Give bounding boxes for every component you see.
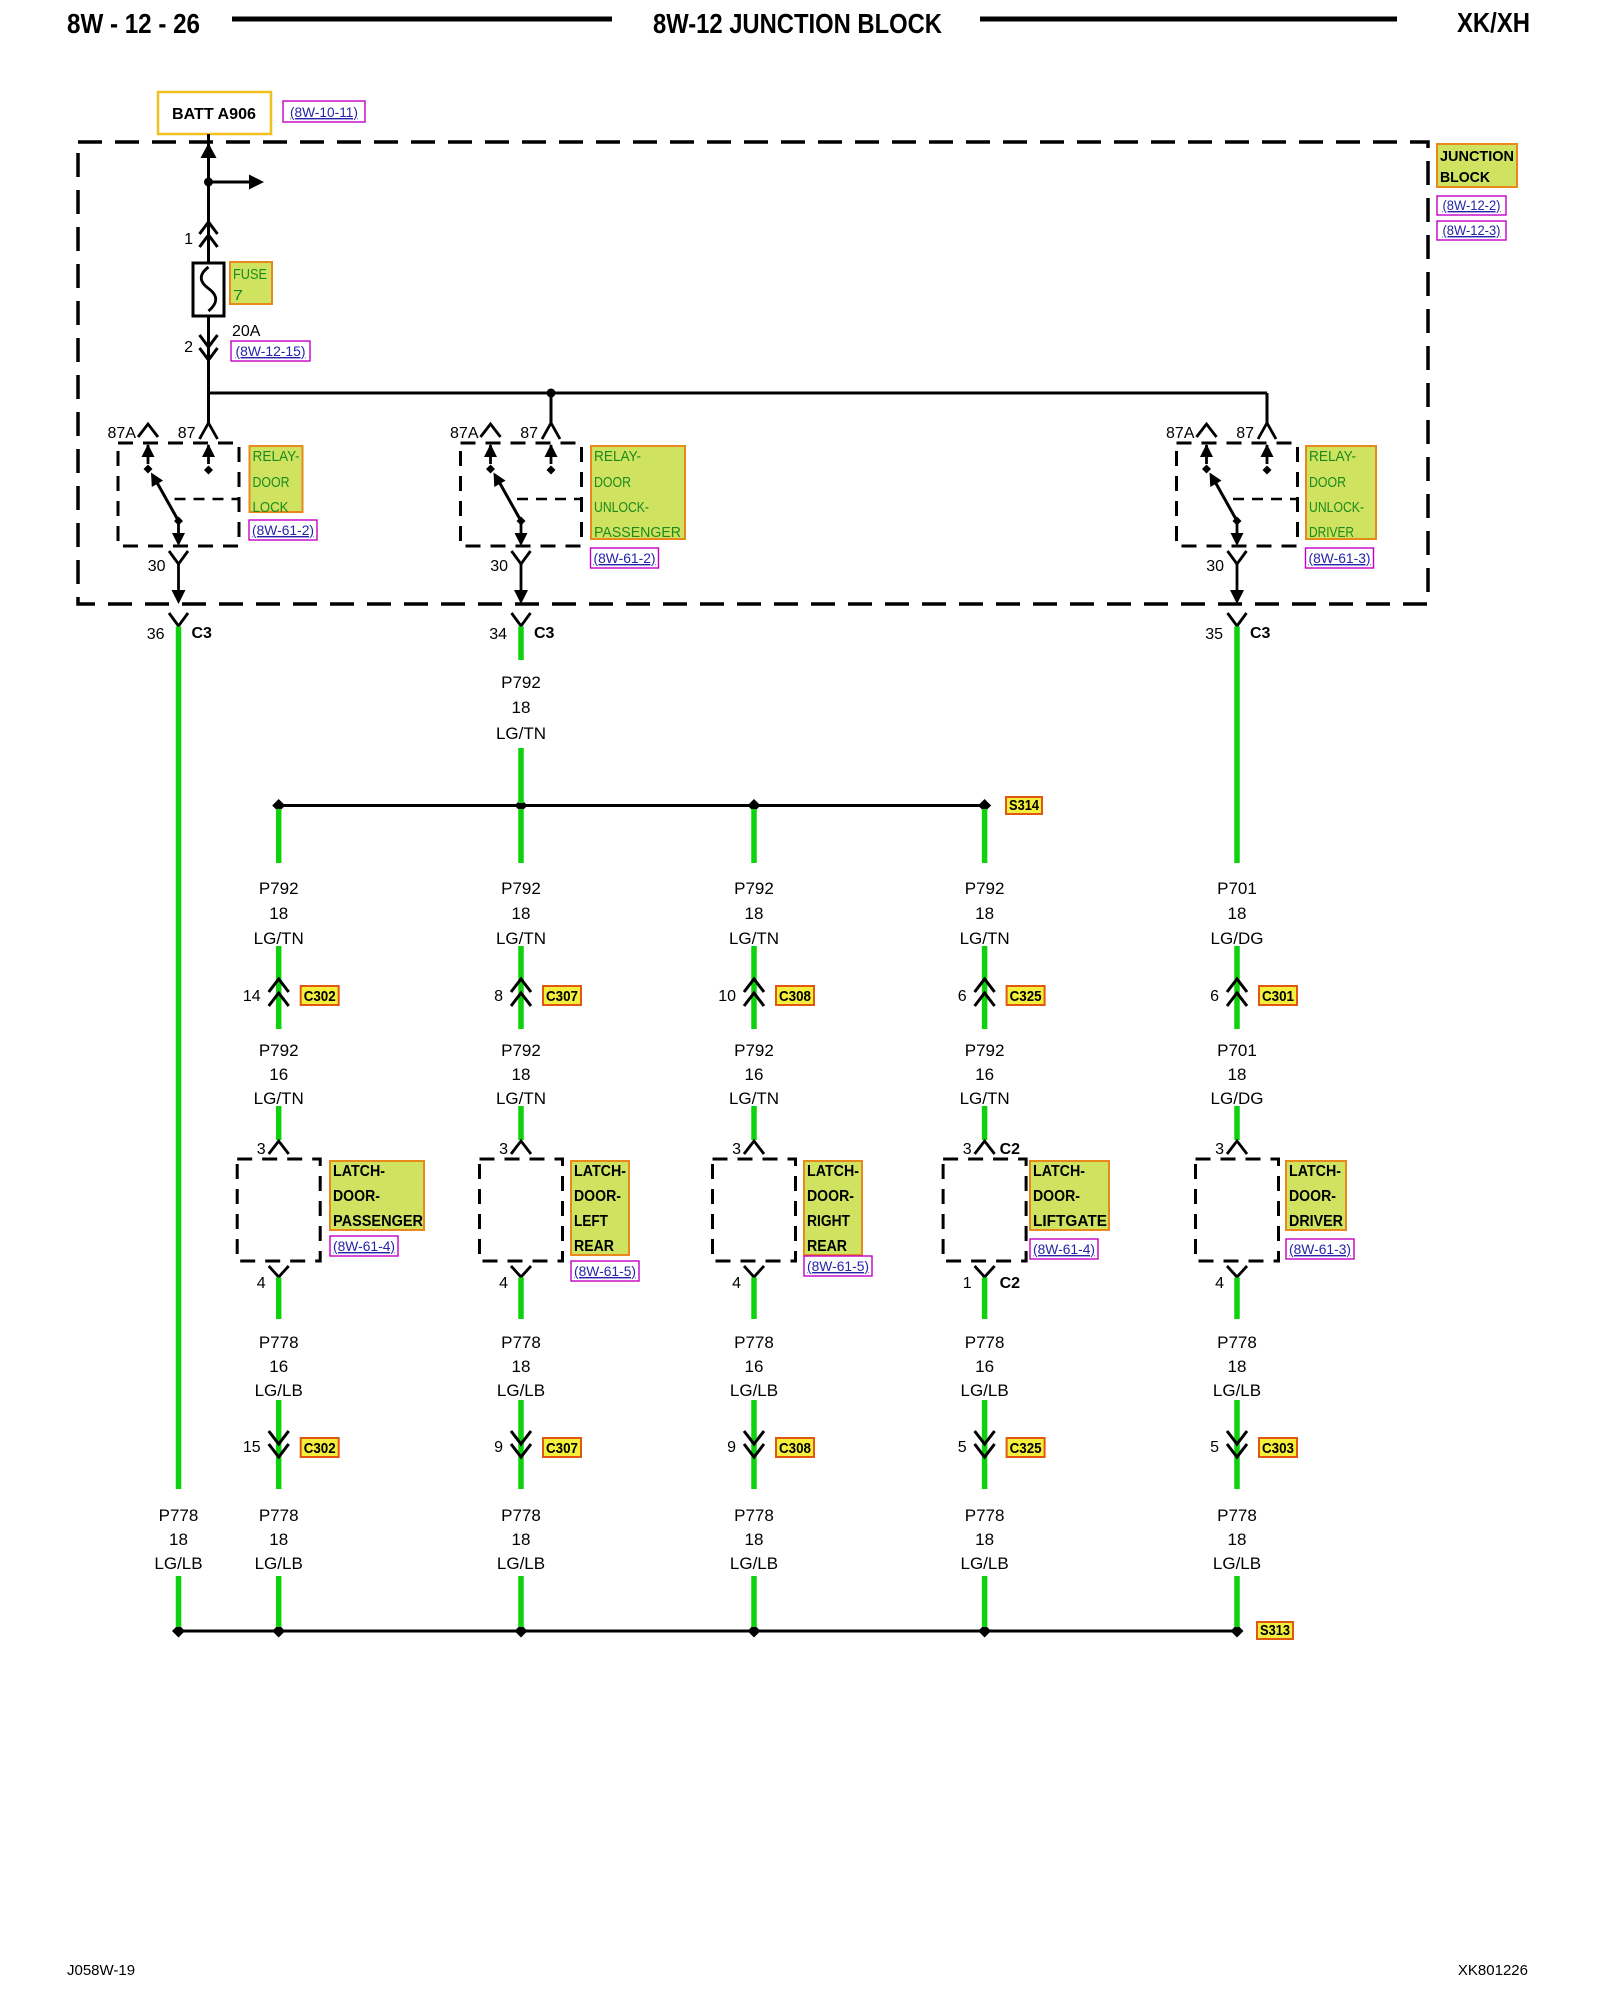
svg-text:P778: P778: [501, 1333, 541, 1352]
svg-text:DOOR-: DOOR-: [807, 1188, 854, 1205]
svg-text:16: 16: [975, 1065, 994, 1084]
svg-text:P792: P792: [965, 879, 1005, 898]
wire through connector C307: [518, 946, 524, 1029]
svg-text:DOOR: DOOR: [594, 474, 631, 491]
svg-text:DOOR-: DOOR-: [1289, 1188, 1336, 1205]
svg-text:4: 4: [257, 1275, 266, 1292]
connector C301 pin 6: [1227, 979, 1247, 992]
svg-text:6: 6: [1210, 988, 1219, 1005]
wire to latch right rear pin 3: [751, 1106, 757, 1140]
link 8W-10-11: [283, 101, 365, 122]
svg-text:LG/TN: LG/TN: [729, 1089, 779, 1108]
svg-text:15: 15: [243, 1439, 261, 1456]
svg-text:JUNCTION: JUNCTION: [1440, 148, 1514, 165]
relay name label: [1306, 446, 1376, 539]
svg-text:C325: C325: [1010, 1440, 1042, 1457]
svg-text:30: 30: [490, 558, 508, 575]
wire through connector C302: [276, 946, 282, 1029]
svg-text:RELAY-: RELAY-: [594, 448, 641, 465]
svg-text:5: 5: [1210, 1439, 1219, 1456]
svg-text:18: 18: [745, 1530, 764, 1549]
pin 30 connector fork: [512, 551, 531, 564]
svg-text:UNLOCK-: UNLOCK-: [1309, 499, 1364, 516]
svg-text:3: 3: [257, 1141, 266, 1158]
svg-text:18: 18: [512, 1530, 531, 1549]
svg-text:20A: 20A: [232, 323, 261, 340]
svg-text:P792: P792: [501, 673, 541, 692]
svg-text:DOOR: DOOR: [1309, 474, 1346, 491]
svg-text:C307: C307: [546, 1440, 578, 1457]
fuse F7 body: [193, 263, 224, 316]
svg-text:8: 8: [494, 988, 503, 1005]
svg-text:16: 16: [975, 1357, 994, 1376]
relay contact 87: [1266, 445, 1269, 464]
svg-text:XK801226: XK801226: [1458, 1962, 1528, 1979]
svg-text:P778: P778: [1217, 1506, 1257, 1525]
wire to splice S313: [982, 1576, 988, 1627]
wire through connector C303: [1234, 1400, 1240, 1489]
svg-text:2: 2: [184, 339, 193, 356]
wire P778 18 LG/LB from relay R1 pin 36: [176, 627, 182, 1490]
latch name label: [804, 1161, 862, 1255]
relay coil dashed line: [1233, 498, 1298, 501]
svg-text:C3: C3: [192, 625, 213, 642]
pin 30 connector fork: [169, 551, 188, 564]
wire to latch passenger pin 3: [276, 1106, 282, 1140]
svg-text:P701: P701: [1217, 1041, 1257, 1060]
wire to latch liftgate pin 3 C2: [982, 1106, 988, 1140]
pin 87 connector arms: [200, 423, 218, 439]
splice S314 label: [1006, 797, 1042, 814]
connector symbol below fuse (double chevron down): [200, 335, 218, 347]
wire through connector C307 lower: [518, 1400, 524, 1489]
latch box: [237, 1159, 320, 1261]
svg-text:P778: P778: [965, 1506, 1005, 1525]
svg-text:18: 18: [169, 1530, 188, 1549]
svg-text:P792: P792: [734, 879, 774, 898]
wire stub to relay 2 pin 87: [550, 393, 553, 423]
svg-text:LG/TN: LG/TN: [496, 1089, 546, 1108]
svg-text:18: 18: [975, 1530, 994, 1549]
wire from latch right rear pin 4: [751, 1278, 757, 1320]
svg-text:(8W-61-2): (8W-61-2): [252, 522, 314, 538]
svg-text:P701: P701: [1217, 879, 1257, 898]
svg-text:7: 7: [233, 287, 243, 304]
relay pin 30 arrow inside box: [1236, 521, 1239, 534]
svg-text:18: 18: [269, 1530, 288, 1549]
wire from latch driver pin 4: [1234, 1278, 1240, 1320]
svg-text:18: 18: [1228, 1065, 1247, 1084]
svg-text:(8W-12-3): (8W-12-3): [1443, 222, 1501, 238]
pin 87A chevron: [1197, 424, 1217, 437]
svg-text:LG/LB: LG/LB: [730, 1381, 778, 1400]
svg-text:87: 87: [178, 425, 196, 442]
svg-text:C325: C325: [1010, 988, 1042, 1005]
wire P792 18 LG/TN from splice S314: [751, 809, 757, 863]
svg-text:18: 18: [512, 1357, 531, 1376]
svg-text:FUSE: FUSE: [233, 266, 267, 283]
svg-text:34: 34: [489, 626, 507, 643]
latch name label: [1030, 1161, 1109, 1230]
wire fuse to feed bus: [207, 316, 210, 423]
svg-text:(8W-12-15): (8W-12-15): [236, 343, 306, 359]
wire stub to relay 3 pin 87: [1266, 393, 1269, 423]
link 8W-61-4: [1030, 1239, 1098, 1259]
svg-text:DOOR-: DOOR-: [333, 1188, 380, 1205]
svg-text:LG/LB: LG/LB: [154, 1554, 202, 1573]
svg-text:LATCH-: LATCH-: [1289, 1163, 1341, 1180]
link 8W-12-3: [1437, 221, 1506, 240]
svg-text:16: 16: [745, 1065, 764, 1084]
connector C302 pin 14: [269, 979, 289, 992]
svg-text:C301: C301: [1262, 988, 1294, 1005]
svg-text:P778: P778: [501, 1506, 541, 1525]
pin 30 connector fork: [1228, 551, 1247, 564]
junction block outline: [78, 142, 1428, 604]
wire through connector C325 lower: [982, 1400, 988, 1489]
svg-text:C3: C3: [1250, 625, 1271, 642]
wire into splice S314: [518, 748, 524, 803]
svg-text:DOOR-: DOOR-: [574, 1188, 621, 1205]
svg-text:LATCH-: LATCH-: [1033, 1163, 1085, 1180]
svg-text:LG/DG: LG/DG: [1211, 1089, 1264, 1108]
latch box: [713, 1159, 796, 1261]
svg-text:LG/TN: LG/TN: [254, 1089, 304, 1108]
wire feed bus horizontal: [209, 392, 1268, 395]
svg-text:REAR: REAR: [574, 1238, 614, 1255]
relay box: [1177, 443, 1298, 546]
svg-text:30: 30: [148, 558, 166, 575]
svg-text:3: 3: [1215, 1141, 1224, 1158]
svg-text:RELAY-: RELAY-: [253, 448, 300, 465]
relay box: [461, 443, 582, 546]
link 8W-61-5: [804, 1256, 872, 1276]
wire through connector C308 lower: [751, 1400, 757, 1489]
svg-text:LEFT: LEFT: [574, 1213, 608, 1230]
svg-text:LIFTGATE: LIFTGATE: [1033, 1213, 1107, 1230]
relay switch arm: [1214, 479, 1238, 521]
fuse 7 label: [230, 262, 272, 304]
wire to latch left rear pin 3: [518, 1106, 524, 1140]
svg-text:18: 18: [1228, 1530, 1247, 1549]
svg-text:LG/TN: LG/TN: [960, 1089, 1010, 1108]
svg-text:18: 18: [1228, 904, 1247, 923]
svg-text:16: 16: [745, 1357, 764, 1376]
svg-text:PASSENGER: PASSENGER: [594, 524, 681, 541]
svg-text:10: 10: [718, 988, 736, 1005]
svg-text:87: 87: [1236, 425, 1254, 442]
svg-text:BLOCK: BLOCK: [1440, 169, 1490, 186]
svg-text:3: 3: [732, 1141, 741, 1158]
svg-text:P792: P792: [501, 1041, 541, 1060]
svg-text:C308: C308: [779, 1440, 811, 1457]
junction dot at relay 2 tap: [547, 389, 556, 398]
svg-text:18: 18: [745, 904, 764, 923]
wire through connector C302 lower: [276, 1400, 282, 1489]
svg-text:DOOR-: DOOR-: [1033, 1188, 1080, 1205]
svg-text:LG/LB: LG/LB: [255, 1381, 303, 1400]
wire P792 18 LG/TN from splice S314: [982, 809, 988, 863]
node junction dot at feed branch: [204, 178, 213, 187]
battery feed box BATT A906: [158, 92, 271, 134]
svg-text:C2: C2: [1000, 1275, 1021, 1292]
svg-text:DRIVER: DRIVER: [1309, 524, 1354, 541]
svg-text:36: 36: [147, 626, 165, 643]
svg-text:P792: P792: [965, 1041, 1005, 1060]
svg-text:PASSENGER: PASSENGER: [333, 1213, 423, 1230]
link 8W-12-2: [1437, 196, 1506, 215]
svg-text:18: 18: [512, 1065, 531, 1084]
svg-text:87: 87: [520, 425, 538, 442]
svg-text:BATT A906: BATT A906: [172, 106, 256, 123]
relay switch arm: [155, 479, 179, 521]
wire from latch liftgate pin 1 C2: [982, 1278, 988, 1320]
svg-text:9: 9: [727, 1439, 736, 1456]
pin 87 connector arms: [1258, 423, 1276, 439]
connector C303 pin 5: [1227, 1431, 1247, 1444]
svg-text:P778: P778: [259, 1506, 299, 1525]
svg-text:C3: C3: [534, 625, 555, 642]
wire from latch left rear pin 4: [518, 1278, 524, 1320]
svg-text:S313: S313: [1260, 1622, 1290, 1639]
svg-text:16: 16: [269, 1065, 288, 1084]
svg-text:C307: C307: [546, 988, 578, 1005]
svg-text:(8W-61-4): (8W-61-4): [333, 1238, 395, 1254]
latch name label: [571, 1161, 629, 1255]
wire P792 18 LG/TN from splice S314: [276, 809, 282, 863]
svg-text:3: 3: [499, 1141, 508, 1158]
svg-text:(8W-61-4): (8W-61-4): [1033, 1241, 1095, 1257]
link 8W-61-2: [591, 548, 659, 568]
header rule right: [980, 17, 1397, 22]
link 8W-61-3: [1306, 548, 1374, 568]
svg-text:LG/LB: LG/LB: [1213, 1554, 1261, 1573]
wire from latch passenger pin 4: [276, 1278, 282, 1320]
relay pin 30 arrow inside box: [520, 521, 523, 534]
wire to splice S313: [1234, 1576, 1240, 1627]
relay contact 87A: [1205, 445, 1208, 464]
wire through connector C308: [751, 946, 757, 1029]
svg-text:LOCK: LOCK: [253, 499, 289, 516]
svg-text:P778: P778: [259, 1333, 299, 1352]
svg-text:30: 30: [1206, 558, 1224, 575]
svg-text:C303: C303: [1262, 1440, 1294, 1457]
link 8W-12-15: [231, 341, 310, 361]
svg-text:18: 18: [1228, 1357, 1247, 1376]
latch name label: [330, 1161, 424, 1230]
svg-text:5: 5: [958, 1439, 967, 1456]
wire to latch driver pin 3: [1234, 1106, 1240, 1140]
svg-text:P778: P778: [734, 1333, 774, 1352]
connector symbol above fuse (double chevron): [200, 222, 218, 234]
svg-text:UNLOCK-: UNLOCK-: [594, 499, 649, 516]
svg-text:LG/TN: LG/TN: [496, 724, 546, 743]
latch box: [943, 1159, 1026, 1261]
link 8W-61-4: [330, 1236, 398, 1256]
svg-text:LG/TN: LG/TN: [729, 929, 779, 948]
wire through connector C325: [982, 946, 988, 1029]
wire pin 30 exit: [177, 577, 180, 591]
svg-text:4: 4: [499, 1275, 508, 1292]
svg-text:(8W-12-2): (8W-12-2): [1443, 197, 1501, 213]
svg-text:P792: P792: [734, 1041, 774, 1060]
relay contact 87: [207, 445, 210, 464]
svg-text:J058W-19: J058W-19: [67, 1962, 135, 1979]
svg-text:P778: P778: [734, 1506, 774, 1525]
svg-text:LG/LB: LG/LB: [497, 1381, 545, 1400]
splice S314 bus: [279, 804, 985, 807]
wire to splice S313: [276, 1576, 282, 1627]
connector C325 pin 5: [975, 1431, 995, 1444]
svg-text:8W-12 JUNCTION BLOCK: 8W-12 JUNCTION BLOCK: [653, 8, 942, 39]
svg-text:18: 18: [975, 904, 994, 923]
svg-text:6: 6: [958, 988, 967, 1005]
relay contact 87: [550, 445, 553, 464]
relay switch arm: [498, 479, 522, 521]
svg-text:(8W-61-5): (8W-61-5): [574, 1263, 636, 1279]
svg-text:P792: P792: [259, 1041, 299, 1060]
svg-text:P792: P792: [259, 879, 299, 898]
svg-text:LATCH-: LATCH-: [807, 1163, 859, 1180]
wire to splice S313: [518, 1576, 524, 1627]
svg-text:35: 35: [1205, 626, 1223, 643]
svg-text:14: 14: [243, 988, 261, 1005]
connector C308 pin 10: [744, 979, 764, 992]
relay coil dashed line: [175, 498, 240, 501]
svg-text:18: 18: [512, 904, 531, 923]
splice S313 label: [1257, 1622, 1293, 1639]
svg-text:LG/LB: LG/LB: [730, 1554, 778, 1573]
svg-text:P778: P778: [159, 1506, 199, 1525]
header rule left: [232, 17, 612, 22]
latch box: [480, 1159, 563, 1261]
pin 87 connector arms: [542, 423, 560, 439]
pin 87A chevron: [481, 424, 501, 437]
branch arrow to right: [209, 181, 251, 184]
svg-text:LG/LB: LG/LB: [960, 1554, 1008, 1573]
connector C325 pin 6: [975, 979, 995, 992]
svg-text:DOOR: DOOR: [253, 474, 290, 491]
link 8W-61-3: [1286, 1239, 1354, 1259]
link 8W-61-5: [571, 1261, 639, 1281]
wire P792 18 LG/TN from relay R2 pin 34: [518, 627, 524, 661]
svg-text:(8W-61-3): (8W-61-3): [1289, 1241, 1351, 1257]
svg-text:(8W-10-11): (8W-10-11): [290, 104, 358, 120]
wire to splice S313: [751, 1576, 757, 1627]
svg-text:(8W-61-3): (8W-61-3): [1309, 550, 1371, 566]
svg-text:LG/LB: LG/LB: [497, 1554, 545, 1573]
svg-text:LG/LB: LG/LB: [960, 1381, 1008, 1400]
svg-text:9: 9: [494, 1439, 503, 1456]
svg-text:DRIVER: DRIVER: [1289, 1213, 1343, 1230]
svg-text:REAR: REAR: [807, 1238, 847, 1255]
svg-text:16: 16: [269, 1357, 288, 1376]
wire battery feed vertical: [207, 134, 210, 263]
svg-text:LG/LB: LG/LB: [1213, 1381, 1261, 1400]
relay contact 87A: [489, 445, 492, 464]
svg-text:LG/TN: LG/TN: [496, 929, 546, 948]
wire to splice S313: [176, 1576, 182, 1627]
pin 87A chevron: [138, 424, 158, 437]
relay box: [118, 443, 239, 546]
svg-text:LG/LB: LG/LB: [255, 1554, 303, 1573]
arrowhead into battery feed: [201, 143, 217, 158]
relay name label: [250, 446, 303, 512]
svg-text:RIGHT: RIGHT: [807, 1213, 850, 1230]
connector C307 pin 9: [511, 1431, 531, 1444]
relay contact 87A: [147, 445, 150, 464]
svg-text:87A: 87A: [1166, 425, 1195, 442]
relay name label: [591, 446, 685, 539]
wire through connector C301: [1234, 946, 1240, 1029]
svg-text:(8W-61-5): (8W-61-5): [807, 1258, 869, 1274]
svg-text:18: 18: [512, 698, 531, 717]
svg-text:P792: P792: [501, 879, 541, 898]
svg-text:4: 4: [732, 1275, 741, 1292]
svg-text:LG/DG: LG/DG: [1211, 929, 1264, 948]
svg-text:1: 1: [963, 1275, 972, 1292]
svg-text:3: 3: [963, 1141, 972, 1158]
svg-text:P778: P778: [965, 1333, 1005, 1352]
svg-text:LG/TN: LG/TN: [254, 929, 304, 948]
svg-text:18: 18: [269, 904, 288, 923]
svg-text:C302: C302: [304, 1440, 336, 1457]
svg-text:4: 4: [1215, 1275, 1224, 1292]
svg-text:(8W-61-2): (8W-61-2): [594, 550, 656, 566]
relay coil dashed line: [517, 498, 582, 501]
svg-text:8W - 12 - 26: 8W - 12 - 26: [67, 8, 200, 39]
svg-text:C2: C2: [1000, 1141, 1021, 1158]
svg-text:LG/TN: LG/TN: [960, 929, 1010, 948]
svg-text:P778: P778: [1217, 1333, 1257, 1352]
connector C308 pin 9: [744, 1431, 764, 1444]
svg-text:LATCH-: LATCH-: [333, 1163, 385, 1180]
wire pin 30 exit: [520, 577, 523, 591]
junction block label: [1437, 144, 1517, 187]
latch box: [1196, 1159, 1279, 1261]
svg-text:RELAY-: RELAY-: [1309, 448, 1356, 465]
connector C302 pin 15: [269, 1431, 289, 1444]
svg-text:87A: 87A: [108, 425, 137, 442]
wire P701 18 LG/DG from relay R3 pin 35: [1234, 627, 1240, 864]
wire P792 18 LG/TN below splice: [518, 809, 524, 863]
svg-text:C302: C302: [304, 988, 336, 1005]
svg-text:LATCH-: LATCH-: [574, 1163, 626, 1180]
splice S313 bus: [179, 1630, 1238, 1633]
latch name label: [1286, 1161, 1346, 1230]
link 8W-61-2: [249, 520, 317, 540]
wire pin 30 exit: [1236, 577, 1239, 591]
svg-text:S314: S314: [1009, 797, 1040, 814]
svg-text:87A: 87A: [450, 425, 479, 442]
connector C307 pin 8: [511, 979, 531, 992]
relay pin 30 arrow inside box: [177, 521, 180, 534]
svg-text:1: 1: [184, 231, 193, 248]
svg-text:XK/XH: XK/XH: [1457, 7, 1530, 38]
svg-text:C308: C308: [779, 988, 811, 1005]
